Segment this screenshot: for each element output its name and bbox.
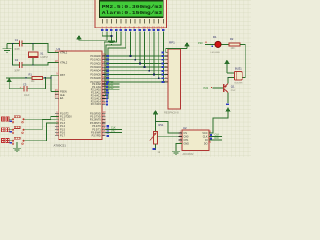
svg-text:P0.5/AD5: P0.5/AD5 — [90, 73, 101, 76]
crystal X1 — [28, 44, 48, 66]
svg-text:ADC0832: ADC0832 — [183, 153, 194, 156]
wire K1 (set) to MCU — [25, 117, 59, 120]
svg-text:RV1: RV1 — [159, 123, 165, 127]
wire C3 to R1 row — [44, 78, 46, 89]
IC U2 ADC0832 body — [182, 130, 209, 151]
wire VDD to power — [79, 32, 107, 41]
wire D0 — [130, 32, 132, 57]
wire D6 — [158, 32, 160, 79]
U1 left pin names — [60, 51, 72, 137]
wire E to P2.5 — [102, 32, 126, 99]
svg-text:GND: GND — [184, 142, 190, 145]
svg-text:30PF: 30PF — [14, 70, 20, 73]
U1 right pin names — [90, 55, 102, 138]
svg-text:D1: D1 — [213, 35, 217, 39]
wire D3 — [144, 32, 146, 68]
power arrow (reset) — [7, 78, 11, 88]
svg-text:11: 11 — [147, 25, 150, 29]
U1 right pin stubs — [102, 56, 106, 136]
node buzzer pin2 — [227, 77, 228, 78]
wire K2 (plus) to MCU — [25, 120, 59, 130]
svg-text:RP1: RP1 — [169, 41, 175, 45]
U2 right net label boxes — [210, 134, 212, 139]
svg-text:RESPACK-8: RESPACK-8 — [164, 111, 179, 115]
node C3/R1 junction — [45, 77, 46, 78]
wire U2 CLK — [209, 136, 222, 138]
RP1 pin stubs and numbers — [166, 52, 169, 82]
svg-text:X1: X1 — [40, 52, 44, 56]
wire power to buzzer pin1 — [227, 72, 234, 74]
node RV1 branch — [155, 121, 156, 122]
power arrow (LCD VDD) — [77, 36, 81, 41]
svg-text:Q1: Q1 — [231, 85, 235, 89]
wire K2 (plus) left — [9, 129, 12, 131]
LCD pin names (vertical tiny) — [102, 19, 164, 23]
wire Q1 emitter up — [227, 78, 229, 84]
node LED left — [211, 45, 213, 47]
wire RV1 wiper to U2 CH0 — [158, 135, 182, 137]
wire C3 row — [9, 88, 45, 90]
resistor pack RP1 — [164, 41, 181, 115]
node crystal bottom — [32, 64, 33, 65]
wire Q1 collector down — [227, 92, 229, 103]
wire U2 GND to ground — [176, 144, 182, 152]
wire P3.7 DIO — [106, 132, 123, 134]
svg-text:PNP: PNP — [231, 90, 236, 92]
potentiometer RV1 — [150, 123, 164, 154]
svg-text:30PF: 30PF — [14, 48, 20, 51]
capacitor C2 — [14, 58, 22, 72]
button K2 (plus) — [1, 126, 24, 133]
svg-text:XTAL2: XTAL2 — [60, 61, 68, 64]
wire RV1 bottom — [155, 144, 157, 150]
wire LED to R2 — [222, 43, 229, 45]
svg-text:BUZ1: BUZ1 — [235, 66, 242, 70]
svg-text:C2: C2 — [15, 58, 19, 62]
wire button ground stem — [16, 142, 18, 149]
wire RST row — [6, 77, 51, 79]
wire base Q1 — [213, 87, 224, 89]
LCD module LCD1 body — [95, 0, 167, 28]
wire D4 — [148, 32, 150, 71]
U2 right pin numbers — [210, 130, 212, 145]
svg-text:PM2.5:0.300mg/m3: PM2.5:0.300mg/m3 — [102, 4, 162, 10]
svg-text:12MHZ: 12MHZ — [40, 57, 48, 59]
svg-text:LED-RED: LED-RED — [211, 52, 221, 54]
power arrow (buzzer) — [225, 60, 229, 73]
LED D1 — [211, 35, 222, 54]
LCD net labels (blue) — [101, 29, 165, 31]
resistor R1 — [29, 73, 43, 83]
svg-text:P0.2/AD2: P0.2/AD2 — [90, 62, 101, 65]
svg-text:AT89C51: AT89C51 — [54, 143, 67, 147]
svg-text:DIO: DIO — [111, 130, 115, 133]
svg-text:DO: DO — [204, 142, 208, 145]
node staircase junctions — [130, 55, 165, 83]
wire C1 to XTAL1 — [22, 44, 59, 53]
capacitor C3 — [20, 82, 30, 97]
wire U2 VCC to power — [209, 114, 228, 134]
wire K3 (minus) left — [9, 140, 12, 142]
svg-text:C1: C1 — [15, 38, 19, 42]
microcontroller U1 body — [59, 51, 102, 140]
P0 bus wires MCU to RP1 — [106, 56, 168, 82]
svg-text:P22: P22 — [204, 86, 209, 90]
svg-text:10uF: 10uF — [24, 94, 30, 97]
ground (U2) — [172, 151, 180, 154]
svg-text:P20: P20 — [198, 41, 203, 45]
node crystal top — [32, 43, 33, 44]
U1 right pin numbers — [103, 53, 106, 137]
ground (crystal) — [3, 44, 12, 53]
svg-text:14: 14 — [161, 25, 165, 29]
power arrow (U2 VCC) — [226, 108, 230, 114]
svg-text:R2: R2 — [230, 37, 234, 41]
svg-text:P0.6/AD6: P0.6/AD6 — [90, 77, 101, 80]
ground (LCD VSS) — [108, 41, 115, 44]
wire P2.0 stub — [106, 83, 120, 85]
wire ground to C1 — [7, 43, 19, 45]
wire K1 (set) left — [9, 118, 12, 120]
wire R2 to buzzer node — [228, 44, 245, 77]
U2 left pin stubs — [179, 133, 183, 144]
node RST riser junction — [50, 77, 51, 78]
ground (buttons) — [13, 148, 21, 151]
node RS landing — [107, 92, 109, 94]
U1 right net label boxes (blue) — [106, 55, 109, 137]
LCD screen bezel — [99, 0, 164, 18]
svg-text:RST: RST — [60, 74, 65, 77]
U2 left pin names — [184, 132, 190, 146]
transistor Q1 — [224, 84, 236, 93]
wire P20 to LED — [205, 43, 215, 45]
wire K3 (minus) to MCU — [25, 123, 59, 141]
wire C2 to XTAL2 — [22, 63, 59, 66]
wire U2 DI — [209, 139, 222, 141]
power arrow (RP1 common) — [185, 43, 189, 49]
wire RP1 common to power — [166, 49, 187, 53]
node rail bottom — [12, 64, 13, 65]
wire RS to P2.3 — [102, 32, 116, 93]
svg-text:P2.7/A15: P2.7/A15 — [91, 103, 102, 106]
svg-text:R1: R1 — [29, 73, 33, 77]
svg-text:13: 13 — [156, 25, 160, 29]
LCD screen — [100, 1, 163, 16]
wire D5 — [153, 32, 155, 75]
svg-text:P0.1/AD1: P0.1/AD1 — [90, 59, 101, 62]
buzzer BUZ1 — [234, 66, 243, 84]
wire D7 — [162, 32, 164, 82]
svg-text:EA: EA — [60, 97, 64, 100]
node VEE/VSS junction — [111, 35, 113, 37]
U2 right pin names — [202, 132, 208, 146]
wire P3.6 CLK — [106, 128, 123, 130]
U2 left pin numbers — [180, 130, 182, 145]
U1 left pin numbers — [55, 49, 58, 136]
wire P2.1 stub — [106, 86, 120, 88]
svg-text:BUZZER: BUZZER — [235, 82, 244, 84]
wire buzzer pin2 to Q1 emitter — [227, 78, 229, 84]
wire VSS to ground — [102, 32, 111, 42]
wire cap rail — [12, 44, 14, 66]
power arrow (RV1) — [153, 111, 157, 132]
wire RW to P2.4 — [102, 32, 121, 96]
svg-text:P22: P22 — [109, 87, 114, 90]
svg-text:P0.0/AD0: P0.0/AD0 — [90, 55, 101, 58]
resistor R2 — [229, 37, 240, 50]
wire VEE — [111, 32, 113, 37]
wire P2.2 stub — [106, 89, 120, 91]
wire RST riser — [51, 75, 59, 91]
svg-text:Alarm:0.150mg/m3: Alarm:0.150mg/m3 — [102, 10, 162, 16]
svg-text:U2: U2 — [183, 126, 187, 130]
wire D1 — [134, 32, 136, 60]
svg-text:DIO: DIO — [215, 137, 219, 140]
wire D2 — [139, 32, 141, 64]
LCD pin numbers 1-14 (red) — [101, 25, 164, 29]
svg-text:P3.7/RD: P3.7/RD — [92, 135, 101, 138]
svg-text:P0.4/AD4: P0.4/AD4 — [90, 70, 101, 73]
svg-text:10: 10 — [142, 25, 146, 29]
svg-text:C3: C3 — [23, 82, 27, 86]
button K3 (minus) — [1, 137, 24, 144]
U1 left pin stubs — [55, 53, 59, 136]
svg-text:P1.7: P1.7 — [60, 135, 66, 138]
svg-text:100: 100 — [231, 47, 236, 50]
capacitor C1 — [14, 38, 22, 51]
wire rail to C2 — [13, 64, 20, 66]
net label below Q1 (blue) — [226, 103, 229, 105]
svg-text:XTAL1: XTAL1 — [60, 51, 68, 54]
net label RV1 bottom (blue) — [152, 148, 155, 150]
svg-text:P0.3/AD3: P0.3/AD3 — [90, 66, 101, 69]
button K1 (set) — [1, 116, 24, 123]
node rail top — [12, 43, 13, 44]
svg-text:12: 12 — [152, 25, 156, 29]
node R1 left blue dot — [25, 77, 26, 78]
wire power branch to U2 CS — [156, 122, 183, 134]
